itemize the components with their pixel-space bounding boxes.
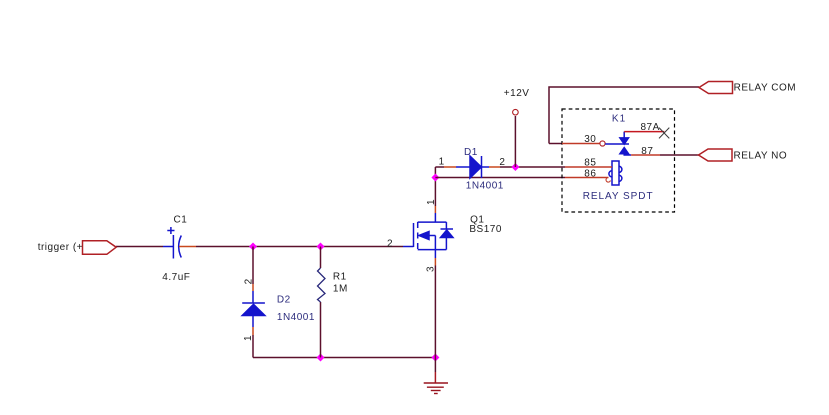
node junction +12V/D1	[511, 163, 519, 171]
node junction rail GND	[431, 354, 439, 362]
svg-text:trigger (+: trigger (+	[38, 242, 83, 253]
gate lead	[403, 246, 414, 248]
relay contact 87A triangle	[620, 138, 629, 144]
svg-text:1N4001: 1N4001	[466, 180, 504, 191]
svg-text:D2: D2	[277, 294, 291, 305]
svg-text:1N4001: 1N4001	[277, 312, 315, 323]
node junction drain/coil86	[431, 174, 439, 182]
wire trigger net: connector to gate	[116, 246, 163, 248]
wire +12V vertical	[514, 116, 516, 167]
node junction R1 top	[317, 243, 325, 251]
relay contact 87 stub	[624, 154, 631, 155]
svg-text:1: 1	[439, 157, 445, 168]
wire relay 30	[549, 143, 562, 145]
svg-text:K1: K1	[612, 114, 626, 125]
capacitor C1	[163, 227, 181, 259]
svg-text:R1: R1	[333, 272, 347, 283]
relay contact 87 triangle	[620, 148, 629, 154]
wire drain vertical	[434, 167, 436, 206]
gate pole	[413, 223, 415, 247]
svg-text:RELAY COM: RELAY COM	[734, 82, 796, 93]
channel dashed	[417, 222, 419, 250]
wire ground stub	[434, 358, 436, 373]
svg-text:2: 2	[244, 278, 255, 284]
body diode branch	[445, 222, 447, 229]
svg-text:1: 1	[426, 199, 437, 205]
relay pin 30 circle	[600, 141, 605, 146]
ground	[424, 383, 448, 394]
connector RELAY NO	[699, 149, 733, 161]
svg-text:4.7uF: 4.7uF	[162, 272, 190, 283]
relay pin 30 lead	[562, 143, 600, 145]
diode D1	[470, 156, 482, 178]
svg-text:+12V: +12V	[504, 88, 530, 99]
wire coil 86	[435, 177, 565, 179]
relay coil 86 lead	[565, 177, 609, 179]
svg-text:85: 85	[584, 158, 596, 169]
node junction C1/D2	[249, 243, 257, 251]
wire bottom rail	[253, 357, 435, 359]
power +12V	[513, 109, 519, 115]
svg-text:BS170: BS170	[469, 224, 502, 235]
capacitor C1 right lead	[179, 246, 196, 248]
svg-text:C1: C1	[174, 214, 188, 225]
wire D1 anode	[435, 166, 444, 168]
node junction rail R1	[317, 354, 325, 362]
resistor R1	[318, 268, 326, 302]
svg-text:87A: 87A	[641, 122, 660, 133]
svg-text:1M: 1M	[333, 284, 348, 295]
relay K1 dashed box	[562, 109, 675, 212]
source bar	[418, 249, 447, 251]
wire R1 top	[320, 247, 322, 269]
relay contact 87A stub	[623, 132, 625, 138]
wire D2 bottom vertical	[252, 316, 254, 328]
svg-text:30: 30	[584, 134, 596, 145]
connector RELAY COM	[699, 82, 733, 94]
relay coil body	[609, 161, 622, 185]
svg-text:1: 1	[243, 335, 254, 341]
wire relay NO to connector	[660, 154, 699, 156]
relay armature line	[605, 143, 629, 145]
no-connect X on 87A	[659, 128, 669, 139]
relay 87 lead	[631, 154, 660, 156]
relay coil 85 lead	[565, 166, 612, 168]
drain bar	[418, 221, 447, 223]
svg-text:2: 2	[499, 157, 505, 168]
wire D1 cathode to coil 85	[482, 166, 490, 168]
wire relay COM riser	[549, 87, 699, 144]
svg-text:86: 86	[584, 169, 596, 180]
diode D2	[242, 303, 265, 316]
svg-text:3: 3	[426, 266, 437, 272]
transistor Q1 BS170	[403, 222, 453, 250]
svg-text:87: 87	[641, 146, 653, 157]
svg-text:RELAY SPDT: RELAY SPDT	[583, 191, 654, 202]
wire R1 bottom	[320, 302, 322, 358]
svg-text:D1: D1	[464, 147, 478, 158]
relay coil 86 arc	[606, 178, 610, 183]
svg-text:RELAY NO: RELAY NO	[734, 150, 788, 161]
svg-text:2: 2	[387, 238, 393, 249]
body arrow	[419, 232, 429, 240]
connector J trigger	[83, 241, 117, 255]
wire D2 top vertical	[252, 247, 254, 285]
wire trigger net: cap to gate	[196, 246, 403, 248]
relay 87A lead	[624, 131, 664, 133]
wire source vertical	[434, 250, 436, 258]
